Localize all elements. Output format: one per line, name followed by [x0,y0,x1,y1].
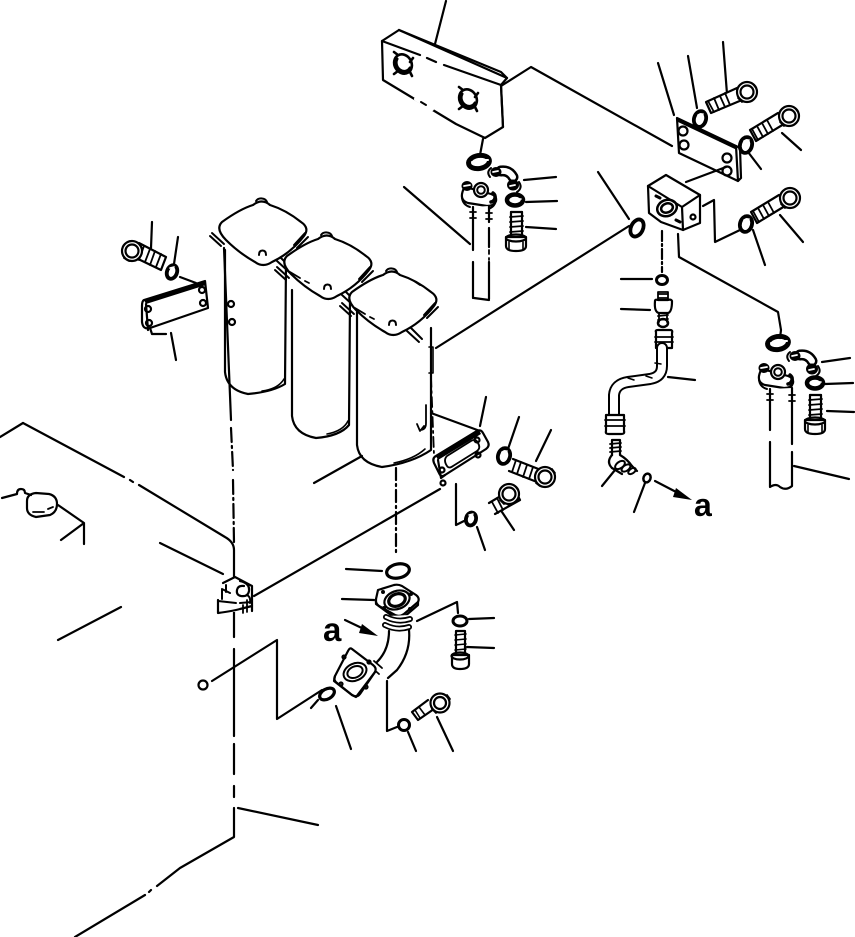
leader to S-tube [668,377,695,380]
bolt 2 (below bracket) [489,484,520,530]
bolt (center, vertical) [506,212,526,251]
long connector filter3 to block O-ring [436,226,629,348]
right tube O-ring [767,335,790,351]
spring washer top (on plate) [692,110,708,129]
leader to tube from upper left [404,187,470,244]
nipple fitting [621,292,672,327]
connector plate to block [686,167,726,182]
long vertical line near filter1 [224,248,235,543]
right washer [807,378,823,389]
S-tube [614,348,662,414]
washer (center top) [507,195,523,206]
tank bracket on edge [218,577,252,613]
bolt right of bracket [509,459,555,487]
S-tube union nut 2 [605,415,625,434]
O-ring (below plate) [468,154,491,170]
long line tank bracket to mounting bracket [254,489,440,596]
leader to O-ring below plate [480,139,483,155]
filter 3 side tab [429,347,433,373]
clamp half (center top) [488,167,520,192]
filter canister 3 cap [340,268,438,342]
block (right) [648,175,700,230]
plate port 1 [391,51,416,77]
upper-left bracket [142,277,208,360]
upper-left washer [165,237,179,280]
elbow fitting below S-tube [609,440,637,476]
zigzag block to washer C [703,200,740,242]
arrow a (left) [323,611,378,648]
S-tube union nut 1 [655,330,673,348]
O-ring left of block [628,217,646,238]
zigzag leader from circle to elbow O-ring [212,640,322,719]
arrow a (right) [655,481,712,523]
svg-text:a: a [323,611,342,648]
zigzag bracket to washer2 [456,484,464,525]
leader to clamp [524,177,556,180]
chain line filter3 to elbow flange [395,468,397,556]
washer 2 (below bracket) [464,511,477,526]
tank leader segments [160,543,223,574]
filter canister 2 cap [275,232,373,306]
right bolt (vertical) [805,395,825,434]
filter canister 1 cap [210,198,308,272]
small circle on tank [199,681,208,690]
small arrow mark inside filter3 [417,405,426,431]
svg-text:a: a [694,487,712,523]
manifold plate (top center) [382,30,507,138]
elbow pipe [370,615,412,681]
washer small below elbow [387,681,416,751]
washer 4 + stud (right of elbow) [417,602,494,669]
connector line plate to right plate [501,67,672,146]
hydraulic tank outline [0,423,234,937]
filter tube flange (center) [462,181,497,209]
leader line to manifold plate [435,1,446,44]
leader to washer [526,201,557,202]
filter tube body (center) [470,206,492,300]
leader to bolt [526,227,556,229]
leaders to bracket area [480,397,486,426]
mounting bracket (right of filter3) [433,430,488,486]
chain line filter3 tab to bracket [431,377,434,455]
spring washer B [738,136,761,169]
spring washer C [738,215,765,265]
bolt A (top right) [706,82,757,113]
leader filter3 to mounting bracket [431,413,480,431]
small O-ring near arrow a [642,473,652,484]
leaders [602,470,615,486]
bolt B (right) [750,106,801,150]
O-ring 2 [311,686,351,749]
square flange 2 [334,648,376,697]
zigzag block to right tube O-ring [678,234,781,338]
leader to right tube [794,466,849,479]
filter canister 3 body [357,312,431,467]
filter canister 1 body [225,250,286,394]
bolt 3 (below elbow) [412,694,453,752]
leader under filter3 [314,456,362,483]
chain below block [661,231,663,272]
plate port 2 [456,86,481,112]
bolt C (right lower) [751,188,803,242]
right tube flange [759,363,794,391]
spring washer near bracket [496,447,512,466]
top-right mounting plate [658,42,741,181]
right clamp half [787,351,819,376]
filter canister 2 body [292,290,350,438]
small O-ring above nipple [657,276,668,285]
upper-left bolt [122,222,166,270]
breather cap on tank [2,489,84,544]
right tube body [767,388,795,489]
square flange top [376,585,419,618]
leader to block O-ring from above [598,172,629,219]
O-ring top [385,562,410,580]
